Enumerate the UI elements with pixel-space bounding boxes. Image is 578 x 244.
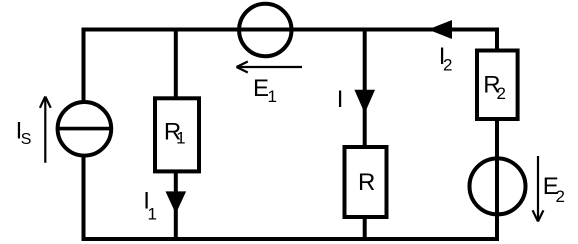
current arrow I2 <box>428 20 452 39</box>
voltage source E1 <box>239 4 291 56</box>
svg-text:1: 1 <box>268 87 277 106</box>
svg-text:2: 2 <box>497 84 506 103</box>
voltage source E2 <box>470 158 526 214</box>
resistor R1 <box>155 98 199 171</box>
resistor R <box>345 147 387 217</box>
wire right rail upper <box>495 28 499 53</box>
resistor R2 <box>477 51 518 120</box>
svg-text:1: 1 <box>176 129 185 148</box>
svg-text:1: 1 <box>148 204 157 223</box>
current source IS <box>58 102 112 156</box>
wire left rail upper <box>82 28 86 102</box>
current arrow I <box>354 90 375 114</box>
wire branch R1 lower <box>174 170 178 240</box>
emf arrow E1 <box>237 62 303 73</box>
wire branch R1 upper <box>174 30 178 101</box>
svg-text:2: 2 <box>443 55 452 74</box>
emf arrow E2 <box>533 156 544 222</box>
wire top rail <box>82 28 498 32</box>
current source IS bar <box>59 127 111 131</box>
svg-text:2: 2 <box>556 187 565 206</box>
wire bottom rail <box>82 237 500 241</box>
svg-text:S: S <box>21 131 32 148</box>
wire branch R upper <box>363 30 367 150</box>
wire right rail lower <box>495 120 499 240</box>
wire left rail lower <box>82 156 86 241</box>
svg-text:I: I <box>337 86 344 113</box>
wire branch R lower <box>363 217 367 241</box>
current arrow IS <box>40 97 51 163</box>
svg-text:R: R <box>358 169 375 196</box>
current arrow I1 <box>166 191 187 213</box>
